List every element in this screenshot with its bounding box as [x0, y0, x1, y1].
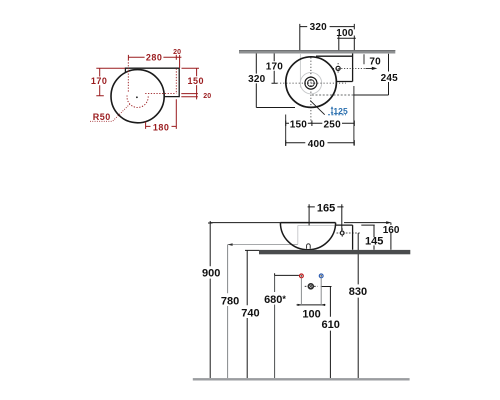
svg-text:400: 400 [308, 139, 326, 150]
svg-text:280: 280 [146, 52, 163, 62]
svg-text:320: 320 [248, 74, 266, 85]
svg-text:830: 830 [349, 286, 367, 298]
svg-text:780: 780 [221, 295, 239, 307]
svg-text:20: 20 [203, 93, 211, 100]
svg-text:70: 70 [369, 57, 381, 68]
svg-text:165: 165 [317, 202, 335, 214]
svg-text:R50: R50 [93, 112, 111, 122]
svg-text:245: 245 [381, 73, 399, 84]
svg-text:610: 610 [322, 319, 340, 331]
svg-text:740: 740 [241, 308, 259, 320]
svg-text:170: 170 [91, 76, 108, 86]
svg-text:250: 250 [324, 120, 342, 131]
svg-text:20: 20 [173, 49, 181, 56]
svg-text:150: 150 [188, 76, 205, 86]
svg-text:170: 170 [266, 62, 284, 73]
svg-text:320: 320 [310, 22, 328, 33]
svg-text:180: 180 [153, 123, 170, 133]
svg-text:160: 160 [383, 225, 400, 236]
svg-text:145: 145 [365, 236, 383, 248]
svg-text:150: 150 [290, 120, 308, 131]
svg-text:100: 100 [336, 28, 354, 39]
svg-text:125: 125 [333, 106, 348, 116]
svg-text:900: 900 [202, 268, 220, 280]
svg-text:100: 100 [302, 308, 320, 320]
